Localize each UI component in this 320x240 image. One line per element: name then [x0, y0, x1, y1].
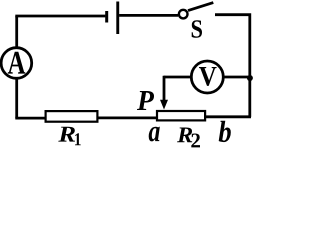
junction dot on right rail — [247, 75, 253, 81]
wire: left vertical rail through ammeter — [15, 16, 18, 118]
wire: voltmeter horizontal branch — [164, 76, 250, 79]
node b label — [219, 121, 231, 142]
voltmeter V — [191, 61, 223, 93]
slider arrow head P — [160, 100, 168, 110]
wire: bottom right from R2 to right rail — [206, 115, 252, 118]
switch blade — [188, 3, 213, 11]
wire: top left horizontal to battery — [15, 15, 105, 18]
battery short plate (negative) — [105, 11, 108, 23]
switch pivot circle — [179, 10, 188, 19]
resistor R2 box (rheostat) — [157, 111, 205, 120]
label R1 — [58, 127, 75, 142]
switch label S — [192, 20, 202, 38]
wire: between R1 and R2 — [98, 117, 157, 120]
wire: battery to switch — [119, 14, 178, 17]
wire: bottom left rail to R1 — [15, 117, 46, 120]
label P — [137, 91, 154, 110]
wire: switch to top-right corner, down right rail — [215, 15, 250, 117]
resistor R1 box — [46, 111, 98, 122]
wire: slider drop wire — [163, 76, 166, 102]
label R2 — [177, 128, 192, 143]
ammeter A — [1, 48, 32, 79]
node a label — [149, 127, 160, 142]
battery long plate (positive) — [116, 2, 119, 35]
